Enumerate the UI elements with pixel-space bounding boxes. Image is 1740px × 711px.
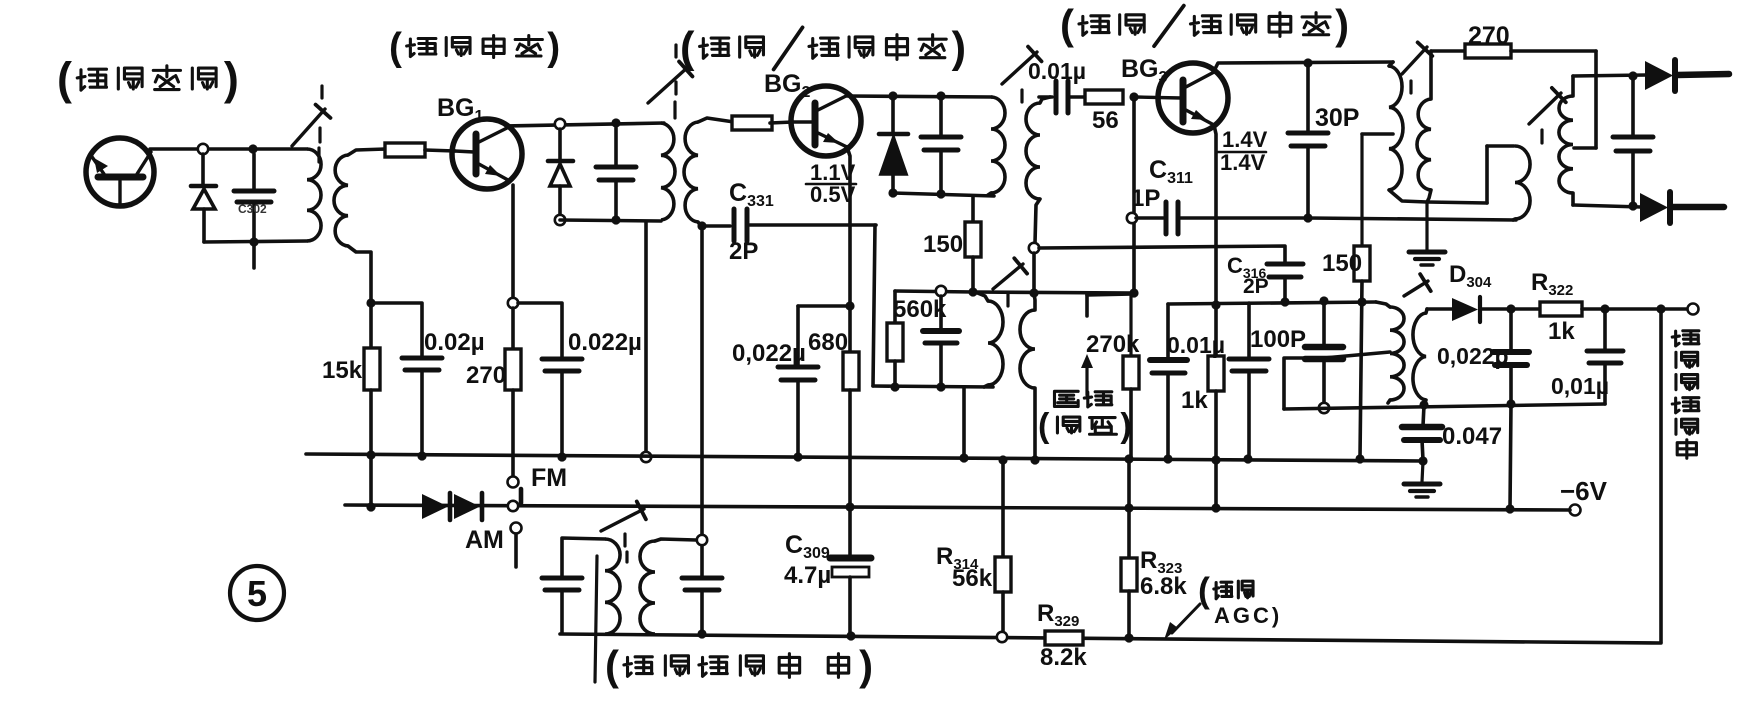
junction dot rail2-bottom b <box>936 189 945 198</box>
resistor R323 <box>1127 508 1131 558</box>
capacitor 0.01u series to BG3 <box>1039 95 1052 99</box>
transformer T3 lower secondary coil <box>1034 293 1035 310</box>
wire T7 core pointer <box>595 556 597 682</box>
svg-text:2P: 2P <box>729 238 758 265</box>
svg-text:1.4V: 1.4V <box>1222 127 1268 152</box>
junction dot on bus2 (1216) <box>1211 503 1220 512</box>
junction dot bias node (371) <box>366 298 375 307</box>
junction dot on C311 row (1308) <box>1303 213 1312 222</box>
junction dot on bus2 (371) <box>366 502 375 511</box>
svg-text:(: ( <box>1038 407 1050 445</box>
transformer T7 secondary coil <box>640 541 655 634</box>
figure number 5 (circled) <box>230 566 284 620</box>
wire to AM output terminal <box>1661 307 1687 311</box>
diode D-sw2 (band switch) <box>454 494 480 519</box>
trimmer arrow on T3 top <box>1002 52 1037 84</box>
capacitor C331 (series) <box>702 224 730 228</box>
wire T2 rail drop to bus <box>644 222 648 452</box>
svg-text:1k: 1k <box>1181 387 1208 414</box>
wire y146 to tertiary coil <box>1487 144 1514 148</box>
junction dot on bus1 (798) <box>793 452 802 461</box>
junction dot collector rail <box>611 118 620 127</box>
svg-text:150: 150 <box>923 231 963 258</box>
svg-text:2P: 2P <box>1243 275 1269 298</box>
capacitor 0.022u BG1 bypass <box>518 303 562 358</box>
trimmer arrow on T5 lower <box>1404 281 1428 296</box>
wire to T6 center tap <box>1574 146 1596 150</box>
svg-text:680: 680 <box>808 329 848 356</box>
wire 1129 bus1-bus2 <box>1127 459 1131 507</box>
transformer T2 primary coil <box>661 123 675 220</box>
junction dot on bus1 (1216) <box>1211 455 1220 464</box>
wire detector bottom row <box>1573 205 1641 207</box>
svg-text:6.8k: 6.8k <box>1140 573 1187 600</box>
svg-text:): ) <box>547 26 560 69</box>
wire bus2 (-6V rail) <box>345 505 1570 510</box>
svg-text:56k: 56k <box>952 565 993 592</box>
wire emitter row rail <box>1168 302 1376 304</box>
svg-text:0,022µ: 0,022µ <box>732 340 806 367</box>
junction dot (1134,293) <box>1129 288 1138 297</box>
resistor R-150 (first) <box>971 196 975 222</box>
svg-text:150: 150 <box>1322 250 1362 277</box>
junction dot BG3 base node <box>1129 92 1138 101</box>
junction dot rail2-bottom a <box>888 188 897 197</box>
capacitor C309 electrolytic <box>848 507 852 556</box>
svg-text:5: 5 <box>247 573 267 614</box>
diode D-sw1 (band switch) <box>422 494 448 519</box>
trimmer arrow on T7 <box>601 509 644 531</box>
wire T1 secondary top to base resistor <box>348 149 386 155</box>
resistor R-15k <box>369 303 373 348</box>
resistor R-270 BG1 emitter <box>511 308 515 349</box>
junction dot tank bottom BG1 <box>611 215 620 224</box>
wire BG1 tank bottom rail <box>560 220 661 221</box>
junction dot row (1285) <box>1280 297 1289 306</box>
svg-text:AM: AM <box>465 526 504 554</box>
junction dot rail BG3 (30P) <box>1303 58 1312 67</box>
wire BG3 emitter <box>1214 125 1216 303</box>
junction dot row (1324) <box>1319 296 1328 305</box>
trimmer arrow on T1 <box>292 109 325 146</box>
wire 270k top rail <box>1087 294 1133 295</box>
resistor R322 <box>1540 302 1582 316</box>
wire to BG2 base <box>770 122 793 123</box>
transformer T1 secondary coil <box>334 155 348 246</box>
trimmer arrow on T6 <box>1529 93 1561 124</box>
svg-text:270: 270 <box>466 362 506 389</box>
wire T2 secondary bottom <box>698 222 701 226</box>
junction dot on bus3 (1129) <box>1124 633 1133 642</box>
svg-text:(: ( <box>605 642 619 689</box>
svg-text:0.01µ: 0.01µ <box>1028 58 1086 84</box>
wire to BG1 base <box>425 150 455 151</box>
capacitor 0.02u <box>371 303 422 357</box>
wire BG2 emitter <box>847 147 850 306</box>
wire base node drop <box>1132 97 1136 290</box>
wire T2 secondary top to base resistor <box>698 118 734 122</box>
wire AM signal row y218-220 <box>1308 218 1516 220</box>
annotation arrow AGC <box>1172 604 1200 633</box>
wire stub below AM terminal <box>514 534 518 567</box>
junction dot on bus1 (1003) <box>998 455 1007 464</box>
transformer T1 primary coil <box>307 149 321 241</box>
svg-text:1P: 1P <box>1131 185 1160 212</box>
wire 1511 to bus2 <box>1510 404 1511 509</box>
svg-text:FM: FM <box>531 464 567 492</box>
node terminal (open) FM <box>508 477 519 488</box>
svg-text:): ) <box>1120 407 1131 445</box>
svg-text:): ) <box>952 24 966 72</box>
capacitor 0.022p <box>1509 309 1513 351</box>
transformer T6 tertiary coil <box>1515 146 1530 219</box>
svg-text:AGC): AGC) <box>1214 603 1282 628</box>
resistor R-680 <box>848 306 852 352</box>
capacitor C316 (series drop) <box>1267 262 1303 267</box>
wire 371 bus1-bus2 <box>369 455 373 507</box>
junction dot on bus1 (422) <box>417 451 426 460</box>
junction dot R322 out (1605) <box>1600 304 1609 313</box>
junction dot rail4 (1511) <box>1506 399 1515 408</box>
svg-text:0,01µ: 0,01µ <box>1551 373 1609 399</box>
node junction (open) BG1 emitter node <box>508 298 518 308</box>
junction dot on converter output <box>248 144 257 153</box>
capacitor 30P <box>1306 63 1310 132</box>
diode damper D-IF2 <box>891 96 895 134</box>
resistor R-base-BG2 <box>732 116 772 130</box>
junction dot on bus1 (964) <box>959 453 968 462</box>
junction dot emitter row (1216) <box>1211 300 1220 309</box>
trimmer arrow on T3 middle <box>993 264 1023 289</box>
node junction (open) bottom of varactor <box>555 215 565 225</box>
node junction (open) T7 right top <box>697 535 707 545</box>
switch blade FM <box>519 489 524 503</box>
junction dot on bus3 (702) <box>697 629 706 638</box>
wire BG2 collector rail <box>847 96 992 97</box>
capacitor C-ratio (big plates) <box>1322 301 1326 345</box>
junction dot 150 bottom <box>968 287 977 296</box>
wire T3 sec out row y246 <box>1039 246 1285 263</box>
junction dot on bus1 (1129) <box>1124 454 1133 463</box>
transformer T5 upper secondary coil <box>1417 99 1431 190</box>
wire BG1 collector rail <box>506 123 664 126</box>
wire BG3 collector rail <box>1214 62 1393 71</box>
node terminal (open) AM detector output <box>1688 304 1699 315</box>
wire BG2 tank bottom rail <box>893 193 994 196</box>
wire T5 secondary top riser <box>1429 51 1433 99</box>
resistor R-560k loop <box>893 291 897 323</box>
node junction (open) on C311 wire <box>1127 213 1137 223</box>
svg-text:1k: 1k <box>1548 318 1575 345</box>
wire T7 top-left rail <box>562 538 605 577</box>
junction dot D304 out (1511) <box>1506 304 1515 313</box>
trimmer arrow on T5 top <box>1402 47 1427 74</box>
ground symbol below 0.047 <box>1422 461 1423 482</box>
varactor diode D-IF1 <box>558 129 562 161</box>
wire collector of BG-osc to tank <box>150 147 307 151</box>
capacitor 0.01u BG3 bypass <box>1166 304 1170 359</box>
node junction (open) on bus1 <box>641 452 651 462</box>
resistor R-270k <box>1085 295 1089 316</box>
diode D304 <box>1427 307 1452 311</box>
svg-text:560k: 560k <box>893 296 947 323</box>
junction dot det bottom (1633) <box>1628 201 1637 210</box>
junction dot bus1 end (1423) <box>1418 456 1427 465</box>
svg-text:8.2k: 8.2k <box>1040 644 1087 671</box>
wire T3 sec to junction <box>1032 253 1036 290</box>
node terminal (open) AM <box>511 523 522 534</box>
svg-text:0.022µ: 0.022µ <box>568 329 642 356</box>
capacitor C-T7-left <box>542 576 582 581</box>
junction dot rail BG2 a <box>888 91 897 100</box>
capacitor 0.022u BG2 emitter bypass <box>796 306 800 366</box>
junction dot row (1362) <box>1357 297 1366 306</box>
transformer T5 upper primary coil <box>1389 62 1393 66</box>
svg-text:100P: 100P <box>1250 326 1306 353</box>
trimmer arrow on T2 <box>648 67 688 103</box>
junction dot on bus2 (850) <box>845 502 854 511</box>
junction dot on bus2 (1129) <box>1124 503 1133 512</box>
junction dot 560k bottom a <box>890 382 899 391</box>
node junction (open) collector rail <box>555 119 565 129</box>
junction dot (1034,293) <box>1029 288 1038 297</box>
svg-text:270k: 270k <box>1086 331 1140 358</box>
junction dot output corner (1661) <box>1656 304 1665 313</box>
junction dot 560k bottom b <box>936 382 945 391</box>
svg-text:56: 56 <box>1092 107 1119 134</box>
svg-text:(: ( <box>389 26 402 69</box>
wire junction row y293 <box>973 292 1133 293</box>
junction dot on bus1 (1168) <box>1163 454 1172 463</box>
junction dot bus2 (1510) <box>1505 504 1514 513</box>
diode D-det1 (FM detector top) <box>1645 61 1673 90</box>
svg-text:(: ( <box>57 53 72 104</box>
junction dot on bus1 (1248) <box>1243 454 1252 463</box>
label squelch <box>1054 391 1078 406</box>
svg-text:−6V: −6V <box>1560 476 1608 506</box>
svg-text:): ) <box>859 642 873 689</box>
ground symbol below T5 <box>1425 202 1428 250</box>
svg-text:(: ( <box>1060 1 1074 48</box>
capacitor 0.01u output filter <box>1603 309 1607 350</box>
wire base node drop to bus1 <box>962 388 966 455</box>
wire output right drop <box>1659 309 1663 642</box>
wire riser x1487 <box>1485 146 1489 203</box>
wire 1k to bus2 <box>1214 460 1218 507</box>
node junction (open) on rail4 (1324) <box>1319 403 1329 413</box>
wire 560k top rail <box>895 291 974 292</box>
junction dot on bus1 (1360) <box>1355 454 1364 463</box>
junction dot rail4 (1424) <box>1419 400 1428 409</box>
wire BG1 emitter drop <box>511 185 515 298</box>
wire bus1 (AGC rail) <box>306 454 1424 461</box>
capacitor C-T7-right <box>700 546 704 577</box>
transformer T3 upper primary coil <box>991 97 1005 193</box>
junction dot emitter node <box>845 301 854 310</box>
label AM detector output (vertical) <box>1672 331 1699 346</box>
wire drop x1596 <box>1594 51 1598 148</box>
junction dot tank bottom <box>249 237 258 246</box>
svg-text:C302: C302 <box>238 202 267 216</box>
resistor R329 (series in bus3) <box>1045 631 1083 645</box>
node terminal (open) -6V <box>1570 505 1581 516</box>
svg-text:): ) <box>224 53 239 104</box>
junction dot on bus1 (371) <box>366 450 375 459</box>
capacitor 100P <box>1247 303 1251 358</box>
junction dot on bus1 (562) <box>557 452 566 461</box>
capacitor C-det <box>1631 76 1635 136</box>
capacitor C-560k node <box>939 296 943 328</box>
capacitor C-IF2 <box>939 96 943 136</box>
transistor BG-osc (FM converter) <box>86 138 154 206</box>
wire detector top row <box>1573 75 1646 76</box>
wire T1 secondary bottom drop <box>348 246 371 303</box>
wire rail4 left hook and T5 tap <box>1284 358 1324 409</box>
wire stub below tank <box>252 242 256 268</box>
junction dot C331 node <box>697 221 706 230</box>
annotation arrow (squelch bias) <box>1085 362 1088 395</box>
wire rail4 <box>1284 404 1605 409</box>
wire y202 row to detector <box>1427 202 1487 203</box>
node junction (open) on bus3 (1002) <box>997 632 1007 642</box>
transistor BG2 <box>791 86 861 156</box>
svg-text:0.047: 0.047 <box>1442 423 1502 450</box>
resistor R-150 (second) <box>1362 132 1393 136</box>
transformer T3 upper secondary coil <box>1040 97 1050 103</box>
resistor R-base-BG1 <box>385 143 425 157</box>
transformer T5 lower secondary coil <box>1426 309 1427 313</box>
svg-text:270: 270 <box>1468 22 1510 50</box>
wire emitter to bypass cap <box>798 304 850 308</box>
diode D-det2 (FM detector bottom) <box>1640 193 1668 222</box>
varactor diode D-conv <box>201 154 205 186</box>
svg-text:0,022p: 0,022p <box>1437 343 1509 369</box>
transistor BG1 <box>452 119 522 189</box>
svg-text:0.02µ: 0.02µ <box>424 329 485 356</box>
resistor R-270 (top) <box>1431 49 1464 53</box>
junction dot det top (1633) <box>1628 71 1637 80</box>
transistor BG3 <box>1158 63 1228 133</box>
capacitor 0.047 <box>1423 405 1424 426</box>
svg-text:30P: 30P <box>1315 104 1359 132</box>
resistor R314 <box>1001 460 1005 557</box>
transformer T7 primary coil <box>605 539 620 634</box>
wire drop from C331 node to AM mixer <box>700 231 704 535</box>
resistor R-56 <box>1085 90 1123 104</box>
resistor R-1k BG3 emitter <box>1214 305 1218 356</box>
svg-text:): ) <box>1335 1 1349 48</box>
svg-text:1.4V: 1.4V <box>1220 150 1266 175</box>
transformer T3 lower primary coil <box>975 292 988 301</box>
svg-text:0.01µ: 0.01µ <box>1167 332 1225 358</box>
transformer T5 lower primary coil <box>1376 302 1390 307</box>
capacitor C311 (series) <box>1136 216 1163 220</box>
wire tank bottom <box>204 241 307 242</box>
transformer T6 secondary coil <box>1571 76 1575 96</box>
wire C331 output drop <box>873 225 875 386</box>
node junction (open) T3 secondary out <box>1029 243 1039 253</box>
junction dot rail BG2 b <box>936 91 945 100</box>
wire T7 secondary top <box>655 539 696 541</box>
node junction (open) 560k top <box>936 286 946 296</box>
wire 560k bottom rail <box>873 386 993 387</box>
svg-text:4.7µ: 4.7µ <box>784 562 831 589</box>
transformer T2 secondary coil <box>684 122 698 222</box>
svg-text:15k: 15k <box>322 357 363 384</box>
capacitor C-IF1 <box>614 128 618 166</box>
node junction (open) on converter output <box>198 144 208 154</box>
node junction (open) on bus2 (513) <box>508 501 518 511</box>
wire bus3 (bottom AGC line) <box>560 634 1661 643</box>
capacitor C-conv <box>252 154 256 190</box>
junction dot on bus1 (1035) <box>1030 455 1039 464</box>
junction dot on bus3 (851) <box>846 631 855 640</box>
